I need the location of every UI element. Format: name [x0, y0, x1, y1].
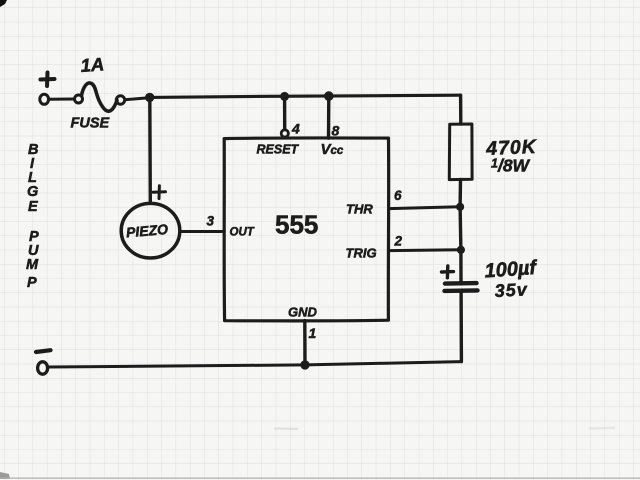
- wire node THR to node TRIG: [458, 207, 462, 250]
- svg-text:OUT: OUT: [230, 227, 255, 239]
- scan artifact: bottom-left mark: [0, 472, 10, 479]
- wire THR pin6: [389, 207, 461, 209]
- wire fuse to node A: [125, 98, 146, 100]
- svg-text:P: P: [27, 275, 37, 291]
- fuse F1 right circle: [116, 96, 124, 104]
- svg-text:100µf: 100µf: [484, 257, 539, 283]
- capacitor C1 bottom plate: [445, 288, 478, 293]
- svg-text:3: 3: [207, 214, 215, 229]
- svg-text:8: 8: [332, 123, 340, 139]
- wire capacitor to bottom rail: [459, 293, 463, 362]
- piezo BZ1 body circle: [121, 203, 180, 258]
- wire resistor to node THR: [458, 180, 462, 207]
- junction dot pin8 rail: [324, 91, 334, 101]
- scan artifact: faint smudge left of bottom: [274, 427, 298, 430]
- fuse F1 element: [82, 83, 118, 111]
- svg-text:TRIG: TRIG: [346, 246, 377, 261]
- wire TRIG pin2: [389, 248, 461, 252]
- node + terminal positive: [41, 77, 55, 82]
- node TRIG junction dot: [457, 246, 465, 254]
- op: 555 IC U1 body: [224, 138, 389, 321]
- svg-text:1: 1: [309, 325, 317, 341]
- svg-text:E: E: [28, 199, 39, 215]
- node THR junction dot: [456, 203, 464, 211]
- wire rail corner down to resistor: [459, 95, 463, 124]
- scan artifact: bottom edge line: [0, 477, 640, 479]
- wire pin4 from rail: [283, 96, 287, 129]
- svg-text:35v: 35v: [494, 279, 528, 301]
- fuse F1 left circle: [75, 95, 83, 103]
- scan artifact: faint smudge bottom right: [589, 426, 615, 429]
- scan artifact: top-left corner mark: [0, 0, 7, 7]
- svg-text:RESET: RESET: [257, 143, 300, 157]
- svg-text:555: 555: [275, 210, 318, 240]
- wire terminal to fuse: [49, 98, 74, 101]
- svg-text:1A: 1A: [80, 53, 105, 76]
- wire node A down to piezo: [148, 97, 152, 201]
- wire GND pin1: [303, 321, 307, 365]
- svg-text:GND: GND: [288, 305, 318, 320]
- piezo BZ1 plus sign: [153, 190, 166, 193]
- pin 4 open circle: [281, 130, 288, 137]
- svg-text:FUSE: FUSE: [71, 116, 111, 132]
- wire pin8 from rail: [327, 96, 331, 138]
- svg-text:2: 2: [394, 234, 403, 249]
- svg-text:4: 4: [291, 121, 300, 137]
- junction dot pin4 rail: [280, 92, 289, 101]
- wire piezo to pin3: [181, 230, 224, 233]
- wire bottom rail: [49, 362, 462, 367]
- svg-text:M: M: [26, 257, 39, 273]
- capacitor C1 plus sign: [442, 270, 454, 274]
- svg-text:G: G: [27, 184, 38, 200]
- node GND junction dot: [300, 360, 309, 369]
- capacitor C1 top plate: [445, 281, 477, 286]
- terminal circle positive: [40, 94, 49, 104]
- wire node TRIG to capacitor: [459, 250, 463, 281]
- svg-text:6: 6: [394, 188, 402, 203]
- node A junction dot: [145, 93, 154, 102]
- node - terminal negative: [36, 350, 51, 352]
- terminal circle negative: [38, 362, 48, 374]
- resistor R1 body: [449, 124, 472, 180]
- svg-text:THR: THR: [346, 202, 373, 217]
- wire top rail: [150, 95, 461, 97]
